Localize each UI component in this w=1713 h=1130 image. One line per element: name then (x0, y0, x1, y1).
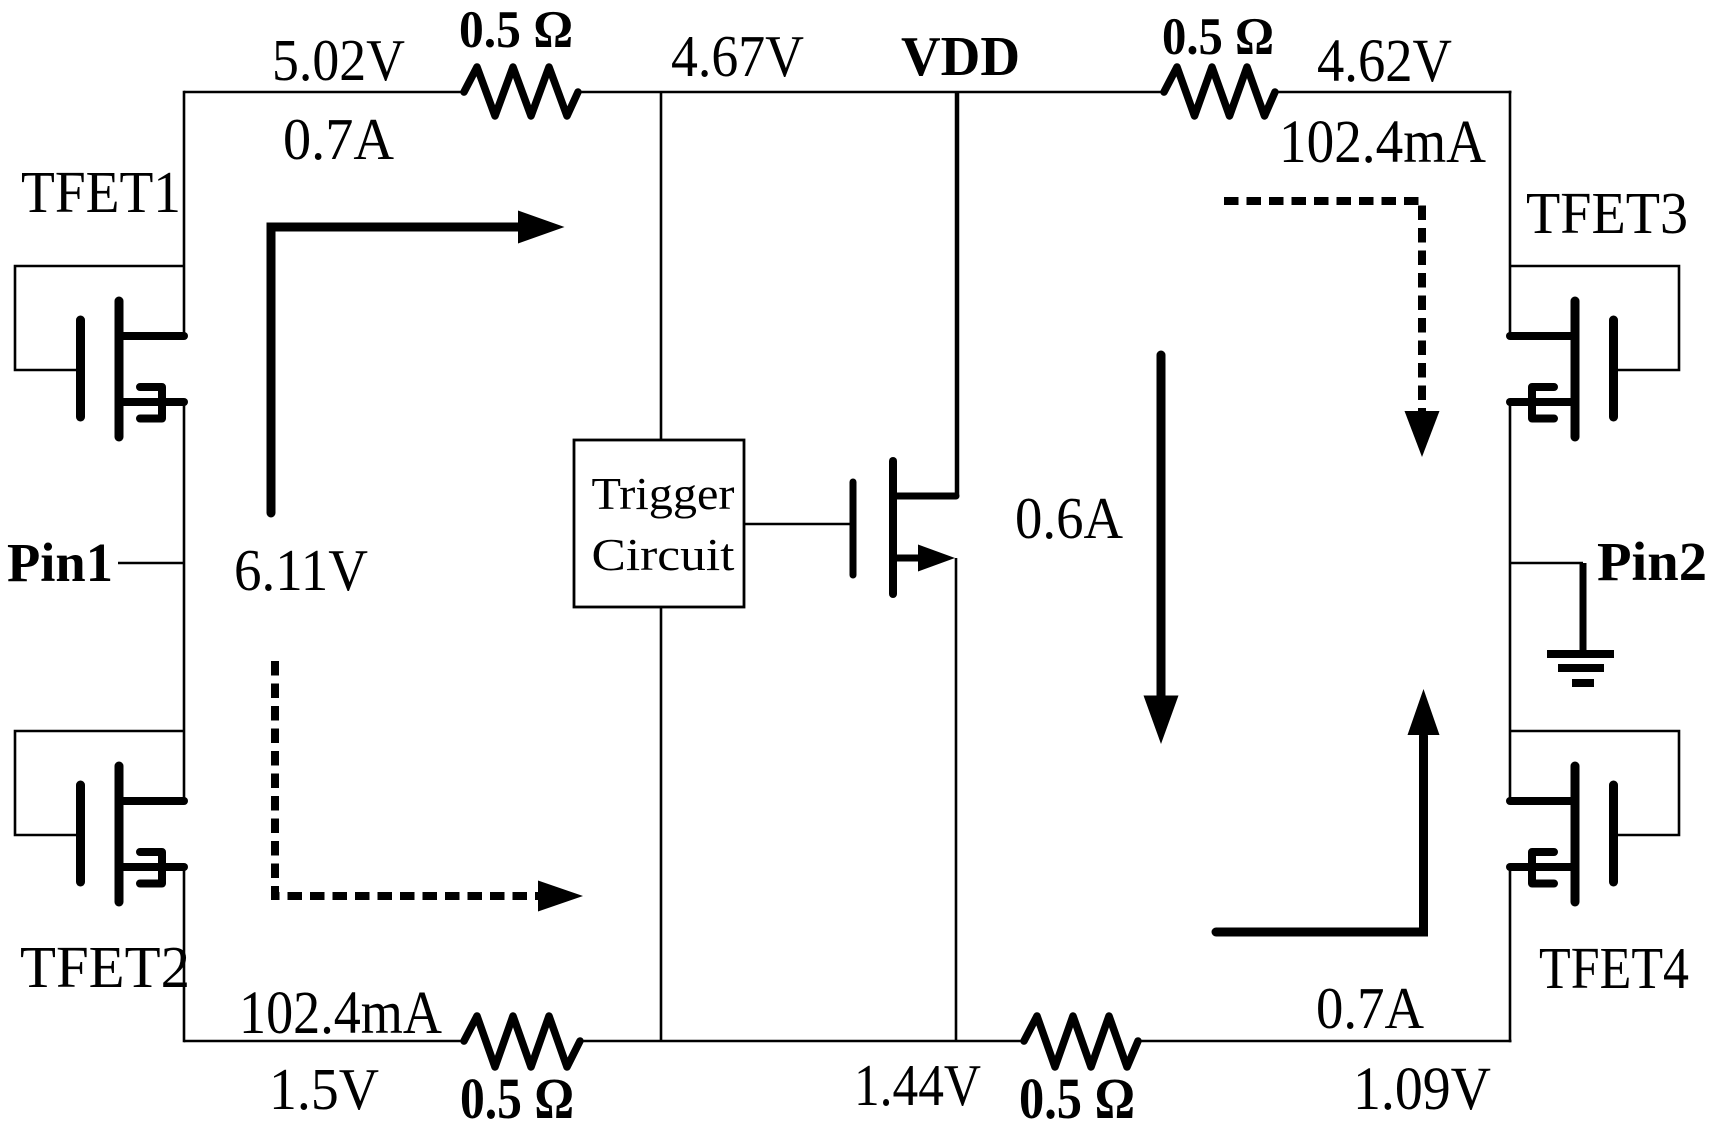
transistor TFET1 channel bar (115, 301, 124, 437)
wire right bus lower (TFET4 source to bottom rail) (1509, 867, 1512, 1042)
wire VDD drop to clamp MOSFET drain (955, 92, 960, 496)
transistor TFET2 channel bar (115, 766, 124, 902)
svg-text:0.7A: 0.7A (1316, 975, 1424, 1041)
transistor M1 clamp drain lead (895, 493, 956, 500)
svg-text:Trigger: Trigger (592, 468, 735, 519)
wire left bus upper (top rail to TFET1 drain) (183, 91, 186, 336)
svg-text:0.5 Ω: 0.5 Ω (1162, 8, 1274, 66)
svg-text:TFET2: TFET2 (20, 934, 190, 1000)
transistor TFET1 drain lead (121, 332, 184, 340)
wire top rail left segment (184, 91, 465, 94)
arrow solid 0.7A bottom-right (1216, 736, 1424, 932)
svg-text:Pin1: Pin1 (7, 532, 113, 593)
transistor TFET4 channel bar (1571, 766, 1580, 902)
svg-text:5.02V: 5.02V (272, 27, 405, 93)
transistor TFET2 source lead (121, 863, 184, 871)
wire trigger to clamp gate (744, 523, 851, 526)
wire Pin1 stub (118, 562, 184, 565)
transistor TFET1 gate bar (76, 320, 85, 417)
transistor TFET3 drain lead (1510, 332, 1573, 340)
svg-text:0.5 Ω: 0.5 Ω (1019, 1066, 1135, 1130)
svg-text:102.4mA: 102.4mA (239, 980, 442, 1047)
resistor R1 0.5ohm top-left zigzag (464, 67, 578, 116)
ground symbol at Pin2 (1580, 563, 1587, 653)
wire top rail right segment (1274, 91, 1512, 94)
transistor M1 clamp source arrowhead (918, 545, 955, 572)
svg-text:TFET1: TFET1 (21, 159, 181, 225)
wire trigger circuit bottom drop (660, 607, 663, 1041)
svg-text:Pin2: Pin2 (1597, 531, 1707, 592)
transistor TFET1 source bracket (140, 387, 162, 419)
resistor R2 0.5ohm top-right zigzag (1164, 67, 1275, 116)
arrow solid 0.7A top-left (271, 227, 519, 513)
transistor TFET4 gate loop wire (1510, 731, 1679, 835)
svg-text:0.7A: 0.7A (283, 106, 394, 172)
transistor TFET2 source bracket (140, 852, 162, 884)
svg-text:1.5V: 1.5V (269, 1056, 379, 1122)
wire left bus middle (TFET1 source to TFET2 drain) (183, 402, 186, 801)
wire top rail middle segment (577, 91, 1165, 94)
transistor M1 clamp channel bar (889, 461, 897, 594)
transistor TFET4 drain lead (1510, 797, 1573, 805)
transistor TFET3 source bracket (1532, 387, 1554, 419)
transistor TFET4 gate bar (1609, 785, 1618, 882)
transistor TFET1 source lead (121, 398, 184, 406)
transistor TFET2 drain lead (121, 797, 184, 805)
transistor TFET4 source lead (1510, 863, 1573, 871)
svg-text:4.67V: 4.67V (671, 23, 804, 89)
transistor TFET3 gate loop wire (1510, 266, 1679, 370)
arrow solid 0.6A middle (1157, 355, 1166, 697)
wire right bus upper (top rail to TFET3 drain) (1509, 91, 1512, 336)
transistor TFET3 channel bar (1571, 301, 1580, 437)
svg-text:Circuit: Circuit (592, 529, 735, 580)
svg-text:0.6A: 0.6A (1015, 485, 1123, 551)
transistor TFET2 gate loop wire (15, 731, 184, 835)
transistor TFET3 source lead (1510, 398, 1573, 406)
svg-text:1.44V: 1.44V (854, 1052, 981, 1118)
transistor M1 clamp gate bar (850, 482, 857, 575)
svg-text:TFET4: TFET4 (1539, 935, 1689, 1001)
wire bottom rail right segment (1137, 1040, 1512, 1043)
wire bottom rail middle segment (579, 1040, 1025, 1043)
resistor R4 0.5ohm bottom-right zigzag (1024, 1016, 1138, 1067)
wire clamp MOSFET source to bottom rail (955, 558, 958, 1041)
arrow dashed 102.4mA bottom-left (275, 661, 539, 896)
trigger circuit box (574, 440, 744, 607)
arrow dashed 102.4mA top-right (1224, 201, 1422, 412)
wire left bus lower (TFET2 source to bottom rail) (183, 867, 186, 1042)
svg-text:1.09V: 1.09V (1353, 1056, 1491, 1123)
wire Pin2 stub (1510, 562, 1583, 565)
resistor R3 0.5ohm bottom-left zigzag (464, 1016, 580, 1067)
transistor TFET3 gate bar (1609, 320, 1618, 417)
svg-text:102.4mA: 102.4mA (1279, 109, 1486, 176)
svg-text:TFET3: TFET3 (1526, 180, 1688, 246)
transistor TFET1 gate loop wire (15, 266, 184, 370)
wire trigger circuit top drop (660, 92, 663, 440)
svg-text:0.5 Ω: 0.5 Ω (459, 1, 573, 59)
svg-text:6.11V: 6.11V (234, 537, 368, 603)
transistor TFET4 source bracket (1532, 852, 1554, 884)
wire bottom rail left segment (184, 1040, 465, 1043)
svg-text:4.62V: 4.62V (1317, 28, 1452, 95)
transistor M1 clamp source lead (895, 555, 920, 562)
transistor TFET2 gate bar (76, 785, 85, 882)
svg-text:0.5 Ω: 0.5 Ω (460, 1066, 574, 1130)
wire right bus middle (TFET3 source to TFET4 drain) (1509, 402, 1512, 801)
svg-text:VDD: VDD (901, 26, 1020, 88)
